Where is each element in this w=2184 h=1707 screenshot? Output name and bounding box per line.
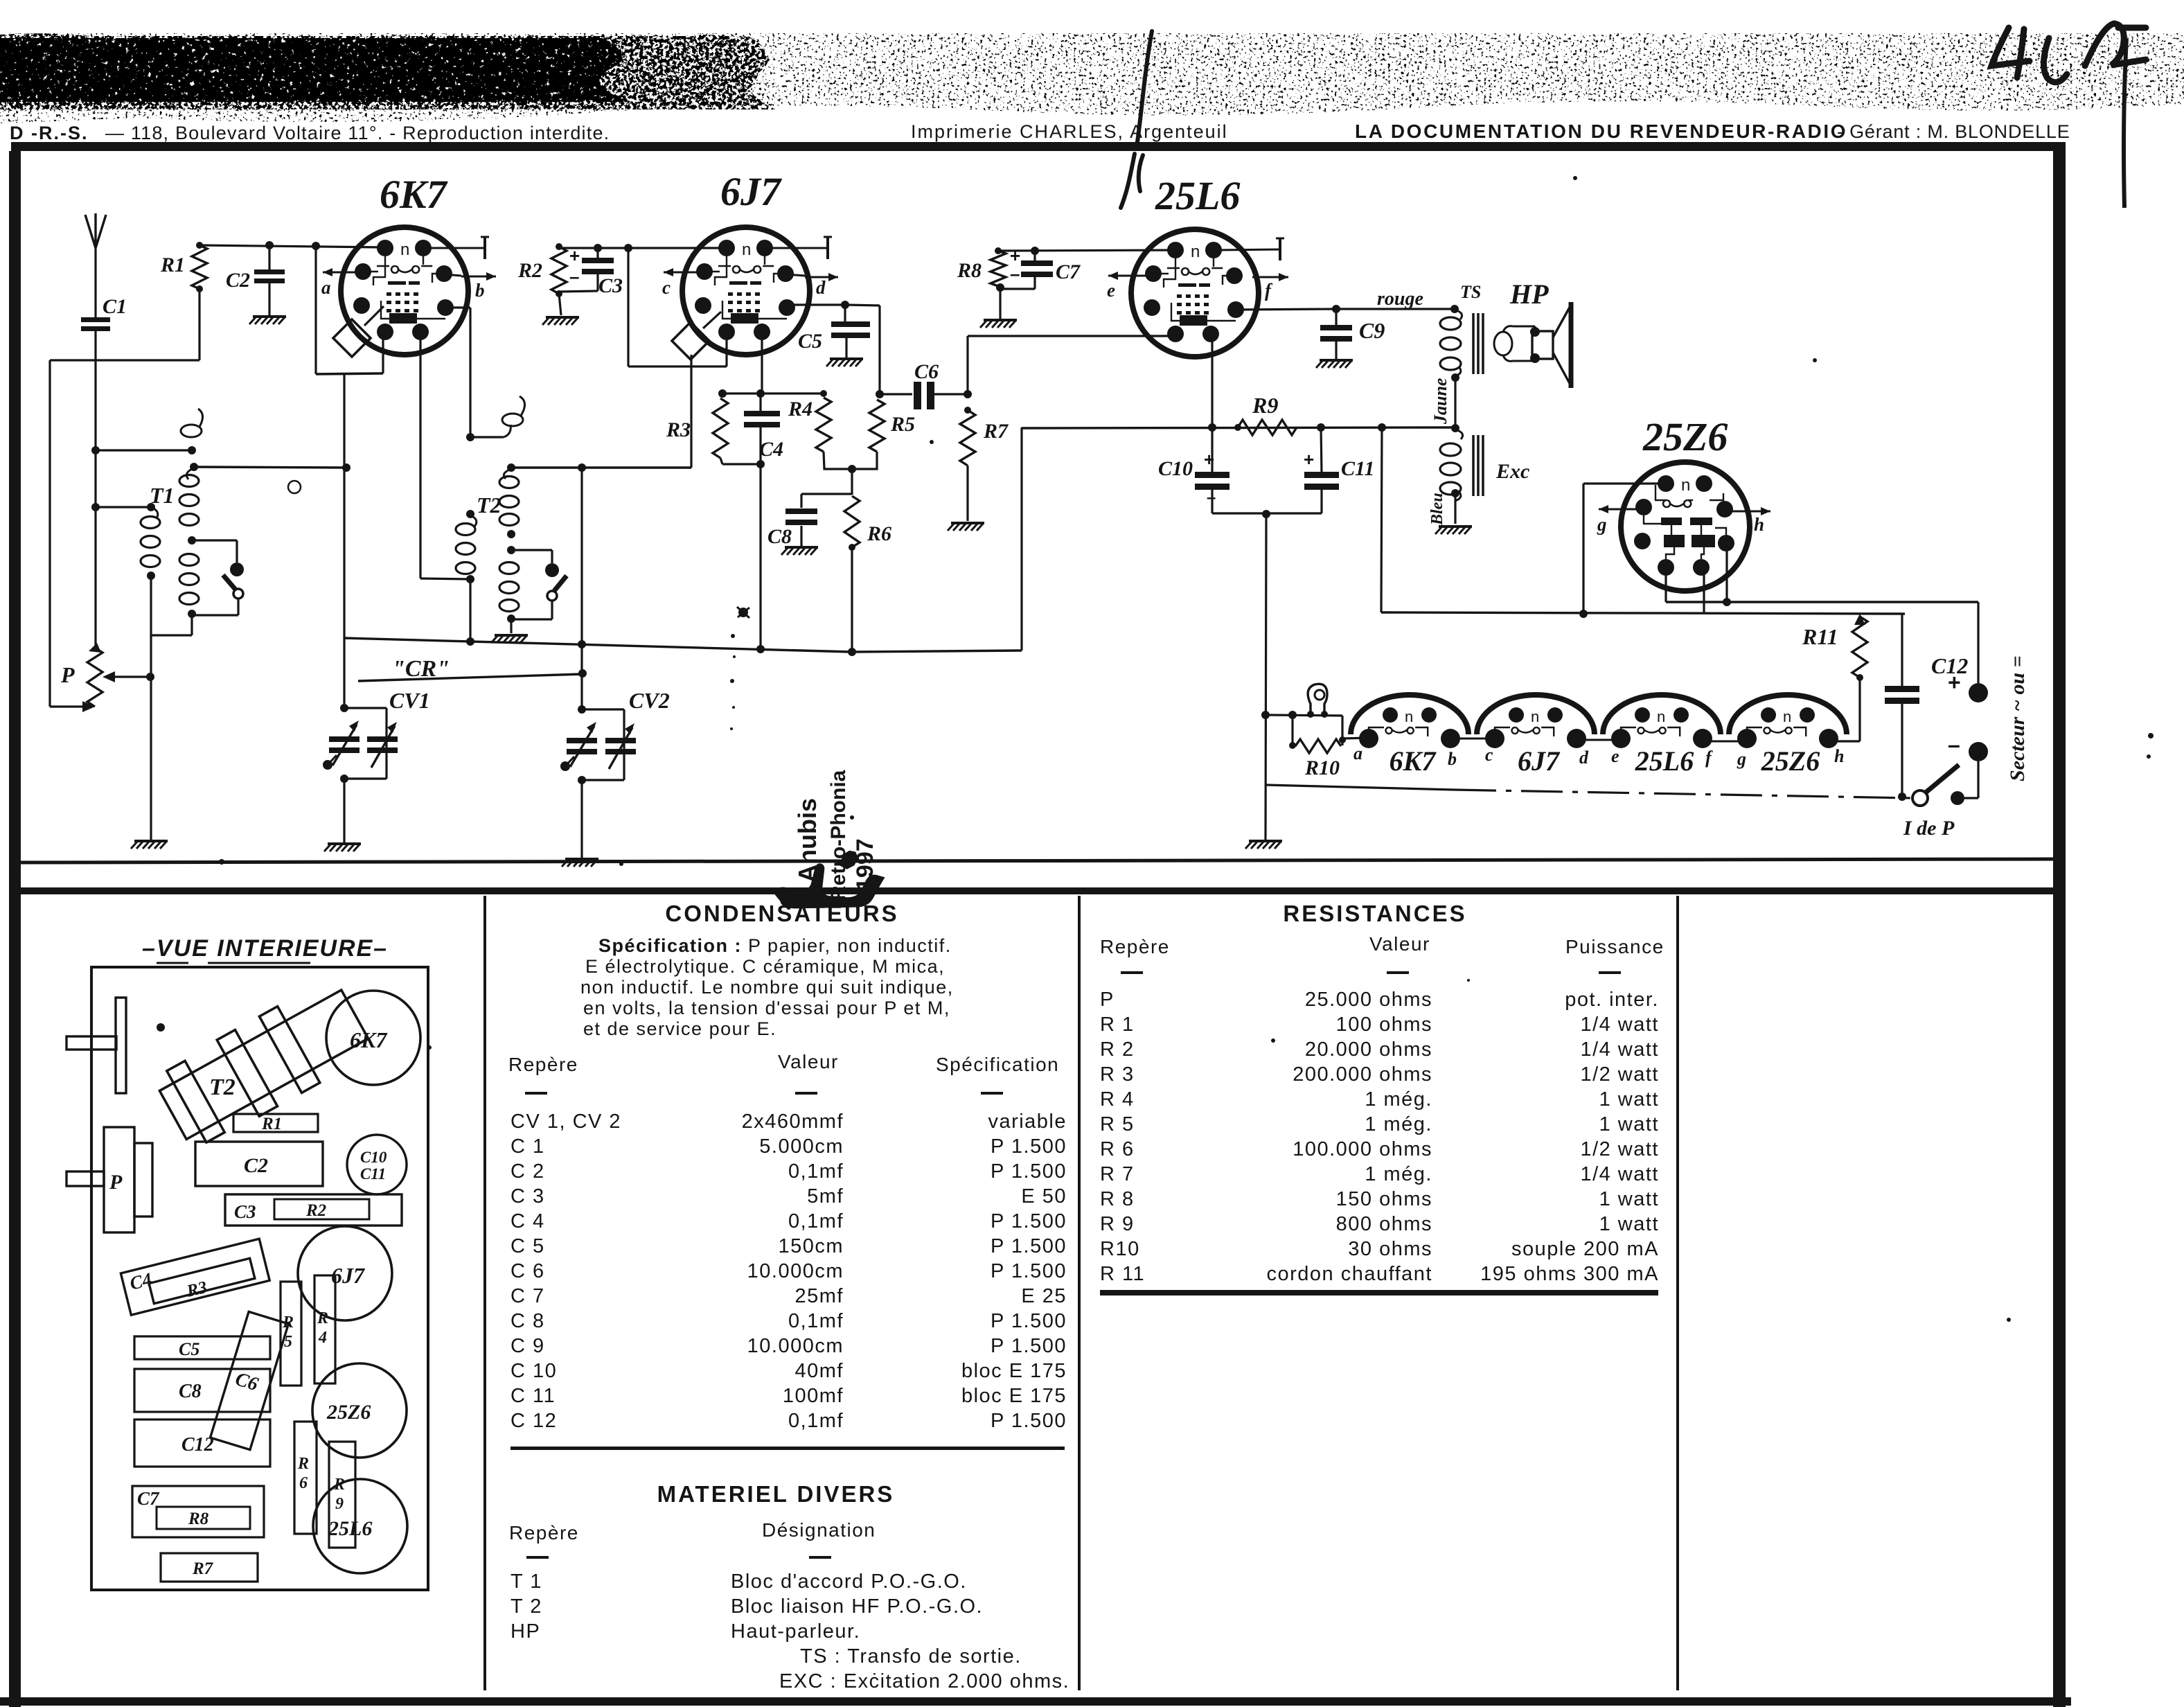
svg-text:10.000cm: 10.000cm [747, 1260, 844, 1282]
wire R10 right leg [1341, 716, 1343, 745]
frame right border [2053, 142, 2066, 1707]
svg-text:TS : Transfo de sortie.: TS : Transfo de sortie. [800, 1645, 1022, 1668]
svg-text:–VUE INTERIEURE–: –VUE INTERIEURE– [142, 935, 388, 962]
wire antenna down [94, 331, 96, 648]
C5 box [134, 1336, 270, 1359]
wire C4 stems [759, 393, 761, 413]
transformer TS core [1472, 313, 1475, 374]
terminal plus [1969, 683, 1988, 702]
svg-text:R1: R1 [160, 254, 185, 276]
svg-text:C5: C5 [798, 330, 822, 353]
svg-text:e: e [1611, 746, 1619, 766]
svg-text:R 11: R 11 [1100, 1263, 1145, 1285]
speaker HP cone [1553, 305, 1571, 386]
svg-text:R 5: R 5 [1100, 1113, 1135, 1135]
wire 6K7 grid down [343, 373, 345, 468]
wire T1 primary top [96, 506, 151, 508]
svg-text:6: 6 [299, 1474, 308, 1492]
wire 6K7 screen drop [419, 332, 421, 578]
node T2 primary top [466, 510, 474, 518]
node grid-riser top [312, 242, 320, 250]
svg-text:P 1.500: P 1.500 [991, 1410, 1067, 1432]
heater dome 6K7 [1351, 695, 1468, 734]
wire 6K7 plate right [445, 306, 470, 308]
divider thick rule [14, 887, 2061, 894]
svg-text:Bloc liaison HF P.O.-G.O.: Bloc liaison HF P.O.-G.O. [731, 1595, 983, 1618]
node T1 tap [188, 536, 196, 545]
R1 box [233, 1114, 318, 1132]
svg-text:C10: C10 [1158, 457, 1193, 480]
wire R6 down [851, 547, 853, 652]
svg-text:R 4: R 4 [1100, 1088, 1135, 1111]
svg-text:–: – [1010, 263, 1020, 284]
resistor R5 [869, 400, 885, 452]
wire CV1 ground [343, 779, 345, 842]
svg-text:C5: C5 [179, 1339, 199, 1359]
svg-text:6K7: 6K7 [380, 172, 448, 217]
svg-text:10.000cm: 10.000cm [747, 1335, 844, 1357]
svg-text:P: P [109, 1171, 123, 1194]
svg-text:1 még.: 1 még. [1365, 1088, 1432, 1111]
svg-text:P 1.500: P 1.500 [991, 1335, 1067, 1357]
scan noise band dense left [0, 38, 630, 102]
wire C2 bottom [268, 283, 270, 315]
svg-text:souple 200 mA: souple 200 mA [1511, 1238, 1659, 1260]
frame left border [9, 151, 21, 1707]
svg-text:30 ohms: 30 ohms [1348, 1238, 1432, 1260]
capacitor C9 [1320, 325, 1352, 330]
svg-text:9: 9 [335, 1495, 344, 1513]
svg-text:R 8: R 8 [1100, 1188, 1135, 1210]
ground R2 [542, 317, 579, 325]
svg-text:g: g [1597, 514, 1607, 535]
switch I de P [1912, 790, 1928, 806]
svg-text:b: b [1448, 749, 1457, 769]
svg-text:n: n [1531, 708, 1539, 725]
svg-text:R 2: R 2 [1100, 1038, 1135, 1061]
C3R2 box [225, 1194, 402, 1226]
svg-text:C8: C8 [179, 1381, 202, 1402]
wire cathode net [1664, 567, 1667, 602]
transformer EXC core [1472, 435, 1475, 496]
svg-text:C12: C12 [181, 1434, 214, 1456]
ground C5 [826, 359, 863, 366]
coil T1 primary [141, 517, 160, 529]
svg-text:Jaune: Jaune [1430, 378, 1450, 425]
wire EXC ground [1454, 493, 1456, 524]
ground CV1 [324, 844, 361, 851]
resistor R1 [192, 245, 207, 289]
svg-text:R8: R8 [188, 1510, 209, 1528]
wire 25Z6 plate drop [1703, 567, 1705, 614]
svg-text:25mf: 25mf [795, 1285, 844, 1307]
svg-text:D -R.-S.: D -R.-S. [10, 123, 89, 143]
svg-text:100.000 ohms: 100.000 ohms [1293, 1138, 1432, 1160]
wire R3 bottom [720, 458, 722, 464]
svg-text:150 ohms: 150 ohms [1336, 1188, 1432, 1210]
C10C11 circle [347, 1135, 407, 1194]
grid cap diamond 6K7 [333, 319, 371, 357]
wire T1 switch top [192, 539, 237, 541]
wire C6 left [880, 393, 912, 395]
svg-text:C6: C6 [914, 360, 939, 383]
svg-text:R: R [297, 1455, 309, 1473]
svg-text:d: d [1579, 748, 1589, 768]
potentiometer P [87, 648, 103, 707]
terminal a arrow [323, 272, 363, 274]
wire plate bus 6J7 [787, 303, 845, 306]
node rail 1907 [1317, 423, 1325, 432]
svg-text:n: n [1783, 708, 1791, 725]
C4R3 block [121, 1239, 269, 1315]
svg-text:R2: R2 [517, 259, 542, 282]
tube circle 25L6 vue [313, 1479, 407, 1573]
wire 25L6 plate right [1236, 309, 1336, 310]
tube 25Z6 [1621, 462, 1750, 591]
svg-text:150cm: 150cm [778, 1235, 844, 1257]
svg-text:800 ohms: 800 ohms [1336, 1213, 1432, 1235]
svg-text:100mf: 100mf [783, 1385, 844, 1407]
svg-text:HP: HP [511, 1620, 540, 1643]
wire rail riser [1020, 427, 1022, 651]
svg-text:1 watt: 1 watt [1599, 1213, 1659, 1235]
svg-text:6J7: 6J7 [720, 169, 782, 214]
node T1 sec bottom [188, 610, 196, 618]
terminal h arrow [1732, 511, 1770, 513]
svg-text:0,1mf: 0,1mf [788, 1410, 844, 1432]
svg-text:P: P [60, 662, 75, 687]
svg-text:Imprimerie CHARLES, Argenteuil: Imprimerie CHARLES, Argenteuil [911, 121, 1228, 142]
svg-text:Valeur: Valeur [1369, 933, 1430, 955]
heater dome 25Z6 [1729, 695, 1847, 734]
coil T2 single loop [502, 414, 523, 426]
tube 6K7 [341, 227, 468, 355]
svg-text:25Z6: 25Z6 [1761, 745, 1820, 777]
svg-text:cordon chauffant: cordon chauffant [1266, 1263, 1432, 1285]
svg-text:I de P: I de P [1903, 817, 1955, 840]
svg-text:Exc: Exc [1495, 460, 1529, 483]
svg-text:R4: R4 [788, 398, 813, 421]
grid cap diamond 6J7 [672, 322, 709, 360]
capacitor C1 [81, 317, 110, 322]
tube circle 6K7 vue [326, 991, 420, 1085]
svg-text:C4: C4 [759, 438, 783, 461]
svg-text:n: n [1191, 242, 1200, 261]
terminal g arrow [1599, 508, 1637, 511]
svg-text:R3: R3 [666, 418, 691, 441]
svg-text:Repère: Repère [509, 1522, 579, 1544]
svg-text:T2: T2 [209, 1074, 236, 1100]
wire C5 bottom [845, 337, 847, 357]
svg-text:e: e [1107, 280, 1115, 301]
svg-text:6K7: 6K7 [350, 1027, 388, 1052]
wire T2 primary down [469, 579, 471, 642]
R8 inner box [157, 1507, 250, 1529]
ground T2 [491, 635, 528, 643]
capacitor C3 electrolytic [582, 258, 614, 263]
svg-text:Désignation: Désignation [762, 1519, 876, 1541]
wire bias drop [851, 469, 853, 495]
svg-text:0,1mf: 0,1mf [788, 1310, 844, 1332]
svg-text:25Z6: 25Z6 [1642, 414, 1728, 459]
resistor R10 [1295, 739, 1341, 753]
svg-text:d: d [816, 277, 826, 298]
svg-text:variable: variable [988, 1111, 1067, 1133]
condensateurs bottom rule [511, 1447, 1065, 1450]
transformer TS secondary [1494, 332, 1512, 355]
svg-text:non inductif. Le nombre qui su: non inductif. Le nombre qui suit indique… [580, 977, 954, 998]
wire C6 right [934, 393, 968, 395]
svg-text:a: a [321, 277, 331, 298]
svg-text:6J7: 6J7 [1518, 745, 1561, 777]
C2 box [195, 1142, 323, 1186]
wire Jaune [1454, 378, 1456, 428]
svg-text:P: P [1100, 989, 1115, 1011]
node TS primary bottom [1451, 373, 1459, 382]
tube circle 25Z6 vue [312, 1363, 407, 1458]
node rail 1995 [1378, 423, 1386, 432]
wire CV2 ground [580, 780, 583, 858]
svg-text:Retro-Phonia: Retro-Phonia [827, 770, 850, 901]
variable capacitor CV2 [582, 708, 624, 710]
svg-text:LA DOCUMENTATION DU REVENDEUR-: LA DOCUMENTATION DU REVENDEUR-RADIO [1355, 121, 1847, 142]
wire C12 top [1901, 614, 1903, 688]
node T2 tap1 [507, 530, 515, 538]
svg-text:P 1.500: P 1.500 [991, 1135, 1067, 1158]
svg-text:P 1.500: P 1.500 [991, 1260, 1067, 1282]
svg-text:C 12: C 12 [511, 1410, 557, 1432]
wire d-e [1577, 739, 1621, 741]
pot P shaft [66, 1171, 104, 1186]
svg-text:C 7: C 7 [511, 1285, 545, 1307]
wire lamp bus [1266, 715, 1342, 716]
svg-text:n: n [400, 240, 409, 259]
wire top bus 6K7 [199, 245, 385, 247]
svg-text:C 3: C 3 [511, 1185, 545, 1208]
svg-text:E électrolytique. C céramique,: E électrolytique. C céramique, M mica, [585, 956, 945, 977]
ground C9 [1316, 360, 1353, 368]
node C6 junction [876, 390, 884, 398]
svg-text:rouge: rouge [1377, 288, 1423, 310]
svg-text:C 10: C 10 [511, 1360, 557, 1382]
svg-text:C 1: C 1 [511, 1135, 545, 1158]
coil T1 secondary lower [179, 554, 199, 566]
svg-text:C7: C7 [1056, 260, 1081, 283]
node antenna-650 [91, 446, 100, 454]
wire B rail [1022, 427, 1455, 428]
capacitor C12 [1885, 686, 1919, 692]
coil T2 primary [456, 524, 475, 536]
svg-text:1/4 watt: 1/4 watt [1580, 1014, 1659, 1036]
cond header dashes [525, 1092, 547, 1095]
svg-text:g: g [1737, 749, 1746, 769]
node T2 tap2 [507, 546, 515, 554]
svg-text:200.000 ohms: 200.000 ohms [1293, 1063, 1432, 1086]
svg-text:h: h [1754, 514, 1764, 535]
ground T1 [131, 841, 168, 849]
wire pot bottom [50, 705, 87, 707]
wire R10 to a [1342, 738, 1369, 738]
svg-text:R10: R10 [1304, 757, 1340, 779]
svg-text:R2: R2 [305, 1201, 326, 1220]
wire HP top [1513, 326, 1535, 328]
wire C10C11 bottom [1212, 512, 1322, 514]
svg-text:C 9: C 9 [511, 1335, 545, 1357]
svg-text:C 5: C 5 [511, 1235, 545, 1257]
wire heater return [1266, 785, 1455, 790]
node EXC bottom [1451, 489, 1459, 497]
wire CR line [358, 674, 583, 681]
svg-text:195 ohms 300 mA: 195 ohms 300 mA [1480, 1263, 1659, 1285]
svg-text:RESISTANCES: RESISTANCES [1283, 901, 1466, 926]
svg-text:TS: TS [1460, 282, 1481, 302]
wire C9 stems [1335, 309, 1337, 326]
ground C2 [249, 317, 286, 324]
ground R8 [980, 320, 1017, 328]
lamp bulb [1308, 684, 1327, 714]
pot P body [104, 1127, 134, 1232]
wire 6K7 grid riser [314, 246, 317, 374]
svg-text:pot. inter.: pot. inter. [1565, 989, 1659, 1011]
svg-text:1/4 watt: 1/4 watt [1580, 1038, 1659, 1061]
scan noise patch [655, 35, 758, 104]
terminal e arrow [1108, 275, 1147, 277]
stray page dots [219, 859, 224, 865]
svg-text:R 7: R 7 [1100, 1163, 1135, 1185]
svg-text:Spécification : P papier, non: Spécification : P papier, non inductif. [598, 935, 952, 956]
svg-text:P 1.500: P 1.500 [991, 1310, 1067, 1332]
watermark anubis dog [774, 851, 885, 909]
antenna jack arm [66, 1036, 116, 1050]
svg-text:1 még.: 1 még. [1365, 1113, 1432, 1135]
res header dashes [1121, 971, 1143, 974]
stray mark asterisk [738, 608, 748, 617]
wire pot wiper [111, 675, 150, 678]
svg-text:1/2 watt: 1/2 watt [1580, 1063, 1659, 1086]
resistor R6 [844, 496, 860, 547]
svg-text:20.000 ohms: 20.000 ohms [1305, 1038, 1432, 1061]
ground R7 [948, 523, 984, 531]
svg-text:C11: C11 [1341, 457, 1374, 480]
svg-text:CV1: CV1 [389, 688, 430, 713]
wire common bus [344, 638, 852, 652]
svg-text:Valeur: Valeur [778, 1051, 839, 1072]
R6 box [294, 1422, 317, 1534]
terminal b arrow [444, 274, 461, 276]
svg-text:Repère: Repère [508, 1054, 578, 1075]
resistor R11 [1852, 617, 1867, 678]
transformer EXC winding [1440, 443, 1461, 456]
stray dots column [731, 634, 735, 638]
svg-text:40mf: 40mf [795, 1360, 844, 1382]
svg-text:E 50: E 50 [1021, 1185, 1067, 1208]
svg-text:CONDENSATEURS: CONDENSATEURS [665, 901, 898, 926]
svg-text:T 1: T 1 [511, 1571, 542, 1593]
smudge ring [288, 481, 301, 493]
svg-text:— 118, Boulevard Voltaire 11°.: — 118, Boulevard Voltaire 11°. - Reprodu… [105, 123, 610, 143]
svg-text:R11: R11 [1802, 624, 1838, 649]
R9 box [329, 1442, 355, 1548]
tube circle 6J7 vue [298, 1226, 392, 1320]
wire T1 bottom join [190, 614, 193, 635]
svg-text:C10: C10 [360, 1149, 387, 1166]
node CV1 top [340, 704, 348, 712]
svg-text:R1: R1 [261, 1115, 282, 1133]
antenna [85, 215, 96, 248]
C6 block [211, 1311, 289, 1449]
ground filter [1245, 841, 1282, 849]
svg-text:n: n [1657, 708, 1665, 725]
svg-text:6K7: 6K7 [1390, 745, 1437, 777]
schematic bottom thin rule [15, 859, 2056, 863]
node T2 primary bottom [466, 575, 474, 583]
svg-text:n: n [1405, 708, 1413, 725]
wire C3 bottom [596, 272, 598, 291]
svg-text:+: + [1948, 670, 1961, 695]
wire R10 left leg [1291, 715, 1293, 745]
svg-text:c: c [1485, 745, 1493, 765]
resistor R9 [1238, 420, 1297, 435]
wire minus lead [1977, 752, 1979, 798]
node 6J7 cathode riser [624, 244, 632, 252]
node T2 sec top [507, 463, 515, 472]
transformer TS primary [1440, 317, 1461, 330]
svg-text:C3: C3 [598, 274, 623, 297]
C8 box [134, 1369, 270, 1412]
wire 25Z6 plate loop [1583, 482, 1666, 484]
wire T1 to ground [150, 635, 152, 840]
switch T1 wave switch [236, 540, 238, 563]
table divider v2 [1078, 896, 1081, 1690]
wire R3C4 top bus [722, 392, 824, 394]
capacitor C7 electrolytic [1021, 260, 1053, 266]
svg-text:MATERIEL DIVERS: MATERIEL DIVERS [657, 1481, 895, 1507]
svg-text:- Gérant : M. BLONDELLE: - Gérant : M. BLONDELLE [1837, 121, 2070, 142]
wire R4R5 join [824, 452, 877, 469]
wire T2 sec ground [510, 619, 512, 633]
svg-text:Bloc d'accord P.O.-G.O.: Bloc d'accord P.O.-G.O. [731, 1571, 967, 1593]
materiel header dashes [526, 1556, 549, 1559]
svg-text:CV2: CV2 [629, 688, 670, 713]
svg-text:HP: HP [1509, 278, 1549, 310]
svg-text:T2: T2 [477, 493, 501, 518]
R2 inner box [274, 1199, 369, 1219]
svg-text:R6: R6 [867, 522, 891, 545]
resistances bottom rule [1100, 1290, 1658, 1295]
ground CV2 [562, 859, 598, 867]
heater dome 25L6 [1603, 695, 1721, 734]
svg-text:C 4: C 4 [511, 1210, 545, 1232]
terminal minus [1969, 742, 1988, 761]
wire T1 primary down [150, 576, 152, 635]
svg-text:–: – [1948, 732, 1960, 757]
svg-text:C9: C9 [1359, 318, 1385, 343]
T2 block [152, 975, 375, 1153]
wire f-g [1703, 741, 1747, 743]
R5 box [281, 1282, 301, 1386]
ground C8 [781, 547, 818, 555]
svg-text:2x460mmf: 2x460mmf [742, 1111, 844, 1133]
wire R8 bottom [998, 286, 1000, 289]
wire R2 ground [559, 294, 561, 315]
svg-text:T 2: T 2 [511, 1595, 542, 1618]
coil T2 secondary lower [499, 563, 519, 574]
wire T1 grid link [194, 467, 346, 468]
ground EXC [1435, 527, 1472, 534]
capacitor C2 [254, 269, 285, 274]
table divider v1 [483, 896, 486, 1690]
wire C12 bottom [1901, 702, 1903, 797]
